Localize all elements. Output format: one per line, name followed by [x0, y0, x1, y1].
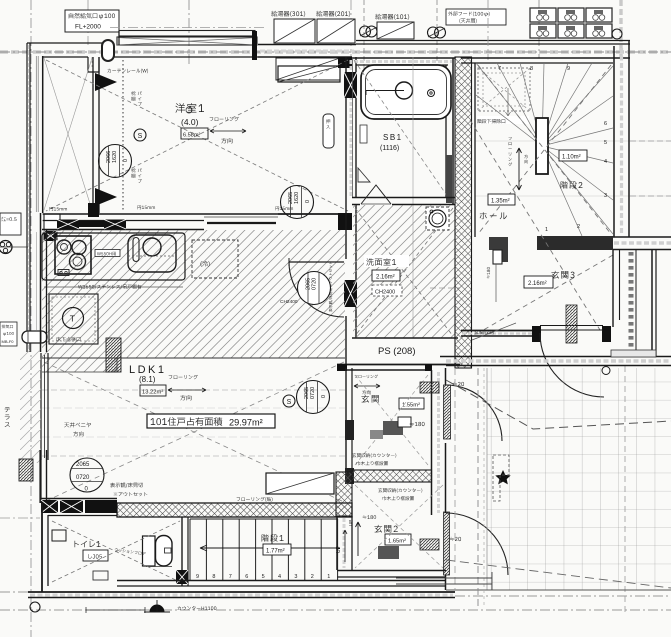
svg-text:0720: 0720 — [310, 387, 316, 399]
svg-text:6: 6 — [604, 121, 607, 127]
bench with diagonal — [266, 473, 334, 494]
toilet dashed diagonal — [52, 521, 180, 582]
door spec circle (2065/0720) rotated — [297, 381, 330, 414]
svg-text:CH2400: CH2400 — [375, 290, 395, 296]
bath room dashed diagonal — [354, 60, 450, 200]
svg-text:T: T — [70, 314, 75, 324]
wall: band continues right — [613, 236, 671, 238]
stair2 room left wall — [474, 63, 476, 237]
svg-text:(1116): (1116) — [380, 145, 399, 152]
left wall below window — [39, 450, 41, 503]
vent symbol circles left — [360, 26, 371, 37]
svg-text:2065: 2065 — [76, 462, 90, 468]
label =0.5 — [0, 213, 21, 235]
wall: stair1 bottom — [117, 580, 446, 582]
shelf top right of room — [278, 66, 340, 82]
genkan2 door leaf — [444, 512, 450, 575]
window: balcony rail line — [110, 27, 265, 29]
svg-text:PS (208): PS (208) — [378, 346, 416, 357]
LDK ceiling dashed X — [44, 362, 344, 502]
stove (konro) — [55, 236, 91, 274]
wall: bath right x446-453 — [445, 65, 447, 198]
genkan2 ceiling dashes — [355, 485, 443, 568]
label: water heater 101 — [375, 14, 409, 20]
left crosshatch strip genkan2 — [336, 472, 352, 516]
wire: vertical centerline x=189 (window) — [188, 0, 190, 64]
label: flooring direction arrow — [210, 117, 239, 121]
label box 1.77m2 — [263, 544, 291, 555]
front door leaf — [540, 325, 603, 327]
wire: centerline x=488 top — [487, 0, 489, 60]
wall niche at left end — [44, 214, 60, 230]
wall: genkan top (PS bottom) — [337, 364, 460, 366]
genkan3 dashed diagonals — [470, 120, 600, 330]
front door sill hatched — [566, 305, 577, 343]
floor access (T) box — [49, 294, 98, 344]
furred wall teeth — [635, 250, 637, 356]
wall: vertical wet wall x346-356 — [345, 57, 347, 259]
wall: genkan3 east wall — [612, 250, 614, 327]
wire: left stub y=518 — [0, 517, 40, 519]
svg-text:0: 0 — [321, 395, 327, 398]
flooring vertical arrow hall — [517, 148, 522, 190]
front door swing arc — [540, 333, 604, 397]
svg-text:1: 1 — [327, 574, 330, 580]
meter boxes top right (2 rows x 3) — [530, 8, 556, 22]
star marker — [495, 470, 510, 484]
window spec circle left (2065/0720) — [70, 458, 104, 492]
property dashed line — [446, 380, 671, 429]
door spec circle rotated (washroom door) — [298, 272, 331, 305]
label box 2.16m2 — [372, 270, 400, 281]
svg-text:8: 8 — [530, 66, 533, 72]
vent fan circle left — [0, 241, 12, 254]
svg-text:7: 7 — [498, 66, 501, 72]
svg-text:29.97m²: 29.97m² — [229, 418, 263, 428]
label box: unit area 29.97m2 — [147, 414, 275, 428]
wall: right outer wall x614-629 — [613, 46, 615, 237]
kitchen counter outline — [42, 233, 185, 280]
genkan step blocks — [383, 421, 403, 435]
vent symbol circles x=433 — [428, 27, 439, 38]
flooring arrow LDK — [169, 375, 198, 379]
label: stair2 name — [561, 181, 583, 188]
label: room name 洋室1 — [175, 103, 204, 113]
window spec circle bottom right (2065/1620) — [281, 186, 314, 219]
bathtub — [361, 65, 451, 119]
svg-text:S: S — [287, 399, 292, 406]
label: floor edge note — [110, 483, 143, 488]
genkan2 step blocks — [378, 546, 399, 559]
svg-text:2: 2 — [577, 224, 580, 230]
svg-text:13.22m²: 13.22m² — [142, 390, 163, 396]
label: water heater 201 — [316, 11, 350, 17]
door frame X-box bottom — [344, 280, 357, 307]
closet front dotted line x=123 — [122, 60, 124, 210]
label box toilet — [83, 550, 108, 561]
svg-text:(4.0): (4.0) — [181, 117, 199, 127]
dashed box CH2400 — [372, 285, 402, 296]
washroom door arc into LDK — [289, 262, 344, 317]
genkan right wall x431-446 — [431, 370, 433, 515]
genkan door swing arc — [446, 385, 502, 441]
shower fixture left wall — [360, 125, 367, 143]
svg-text:FL+2000: FL+2000 — [75, 24, 101, 31]
wire: plumbing line x=364 — [363, 0, 365, 92]
svg-text:9: 9 — [196, 574, 199, 580]
stair1 direction arrow — [200, 545, 340, 551]
window: sliding frame band with cross — [117, 37, 257, 45]
mirror bar right wall — [446, 155, 452, 203]
svg-text:1620: 1620 — [112, 151, 118, 163]
wire: closet centerline stub x=88 — [87, 0, 89, 45]
svg-text:3: 3 — [294, 574, 297, 580]
porch outer walls right — [651, 250, 653, 356]
front door jambs — [532, 326, 541, 342]
svg-text:6.58m²: 6.58m² — [183, 132, 201, 138]
label: genkan — [361, 395, 378, 403]
svg-text:3: 3 — [604, 193, 607, 199]
svg-text:1.35m²: 1.35m² — [491, 199, 510, 205]
wall: genkan3 bottom left segment — [461, 330, 533, 332]
washroom floor hatch — [353, 205, 455, 338]
label box 1.55m2 — [399, 398, 424, 409]
door frame X-box top — [344, 72, 357, 98]
label: water heater 301 — [271, 11, 305, 17]
porch dashed vertical lines — [477, 368, 479, 608]
label: genkan2 — [374, 525, 397, 533]
svg-text:0720: 0720 — [76, 475, 90, 481]
washroom dashed diagonals — [355, 208, 453, 336]
room diagonals (ceiling dashed) — [46, 60, 348, 211]
svg-text:4: 4 — [604, 159, 607, 165]
exterior tile grid — [487, 368, 671, 590]
label 円15mm — [137, 205, 155, 209]
label flooring(hari) — [237, 497, 273, 502]
genkan2 left wall below — [336, 516, 338, 570]
door frame X-boxes in kitchen wall — [57, 220, 79, 230]
duct pill at window jamb — [102, 40, 114, 61]
label: stair1 name — [262, 534, 284, 541]
folding bath door — [361, 185, 391, 204]
wall: genkan2 bottom — [337, 570, 446, 572]
svg-text:1: 1 — [545, 227, 548, 233]
label: under-stair access — [477, 116, 529, 124]
wall: yoshitsu1 bottom wall — [43, 213, 352, 215]
wall: crosshatch wall x457-470 — [455, 57, 472, 368]
label box 2.16m2 genkan3 — [524, 276, 553, 288]
toilet top wall with X boxes — [40, 498, 117, 500]
wire: left vertical centerline x=31 — [30, 0, 32, 637]
svg-text:0720: 0720 — [312, 278, 318, 290]
wall: washroom bottom / PS top — [352, 337, 458, 339]
genkan2 door swing arc — [446, 513, 508, 575]
wall: top wall right of window (x258-356) — [258, 44, 356, 46]
svg-text:9: 9 — [567, 66, 570, 72]
toilet small fixtures — [52, 530, 66, 541]
label box 1.35m2 — [488, 194, 515, 205]
label: hall name — [480, 212, 507, 219]
left wall kitchen segment — [40, 213, 42, 352]
left wall pipes: pill — [22, 331, 47, 343]
genkan left wall — [345, 368, 347, 470]
closet door black triangles — [95, 73, 117, 91]
anchor symbol bottom — [150, 605, 164, 612]
svg-text:1.65m²: 1.65m² — [388, 539, 406, 545]
sensor S circle LDK — [283, 395, 295, 407]
wire: right gray band x=621 — [619, 0, 622, 57]
window jamb right — [252, 31, 257, 60]
svg-text:UP: UP — [336, 545, 342, 553]
window centerline marker circle — [186, 107, 192, 113]
window spec circle left (2066/1620) — [99, 145, 132, 178]
fridge dashed box — [192, 240, 238, 278]
svg-text:2: 2 — [311, 574, 314, 580]
wire: plumbing line x=437 — [436, 0, 438, 92]
wall notch near window — [88, 57, 99, 72]
svg-text:4: 4 — [278, 574, 281, 580]
label box: natural air inlet — [65, 10, 119, 32]
stair2 winder tread lines — [476, 63, 542, 146]
label: counter spec — [78, 284, 141, 289]
wall: bath top — [352, 57, 455, 59]
label: counter H1100 — [177, 606, 216, 610]
svg-text:1.77m²: 1.77m² — [266, 549, 285, 555]
svg-text:(8.1): (8.1) — [139, 375, 156, 384]
small circle porch — [602, 367, 610, 375]
washing machine — [426, 207, 449, 230]
wall: LDK bottom crosshatch band — [117, 503, 352, 517]
wire: wet wall centerline stub x=351 — [350, 0, 352, 58]
stair2 dashed diagonals — [478, 65, 611, 234]
toilet room walls — [41, 503, 43, 592]
genkan top-right sill — [420, 382, 439, 393]
svg-text:2.16m²: 2.16m² — [528, 281, 547, 287]
porch bottom steps — [396, 577, 492, 579]
UP arrow genkan2 — [356, 522, 361, 556]
wall: right outer band y356-366 — [440, 356, 671, 358]
stair1 treads — [190, 518, 338, 520]
wire: bottom boundary dashed y=610 — [0, 609, 671, 611]
genkan door leaf (hatched) — [444, 385, 451, 439]
hanger pipe labels — [131, 91, 135, 95]
small circle bottom left — [30, 602, 40, 612]
svg-text:5: 5 — [604, 140, 607, 146]
stair2 newel post — [536, 118, 548, 174]
label box exhaust left — [0, 322, 17, 346]
label box 13.22m2 — [140, 385, 166, 396]
svg-text:0: 0 — [123, 159, 129, 162]
label: genkan storage (counter) — [352, 453, 396, 458]
label: genkan3 — [551, 271, 574, 279]
stair2 dashed under-stair box — [478, 68, 530, 111]
terrace hatch — [20, 350, 41, 463]
label: ceiling direction — [64, 422, 91, 427]
sensor S circle — [134, 129, 146, 141]
wire: vertical centerline x=539 — [538, 0, 540, 58]
box with diagonal below 201 — [276, 58, 340, 80]
bottom outer wall — [28, 591, 455, 593]
toilet fixture — [143, 536, 156, 566]
flooring arrow genkan — [355, 375, 378, 379]
svg-text:SB1: SB1 — [383, 133, 403, 142]
stepped dashed outline near star — [493, 455, 509, 501]
wire: right margin stub lines — [475, 140, 671, 142]
hall step blocks — [489, 237, 508, 250]
svg-text:6: 6 — [245, 574, 248, 580]
label: curtain rail — [107, 69, 148, 74]
genkan2 sill — [420, 539, 439, 550]
svg-text:MB-F0: MB-F0 — [2, 339, 15, 344]
svg-text:5: 5 — [262, 574, 265, 580]
svg-text:UP: UP — [348, 520, 353, 526]
closet void diagonals — [44, 58, 92, 210]
vertical pill label (oshiire) — [323, 114, 334, 148]
counter end hatched sill — [106, 338, 121, 372]
label box 1.10m2 — [559, 150, 587, 161]
svg-text:0: 0 — [305, 200, 311, 203]
svg-text:S: S — [138, 133, 143, 140]
black corner block top-right — [338, 57, 352, 68]
terrace window (left) — [40, 353, 42, 460]
genkan right wall bottom stub — [445, 575, 447, 590]
label box 6.58m2 — [181, 128, 208, 139]
label box: exterior hood — [446, 9, 506, 25]
svg-text:8: 8 — [212, 574, 215, 580]
kitchen floor hatch — [42, 230, 345, 358]
wall: outer top wall y40.5-44 right part — [356, 40, 630, 42]
sink — [128, 235, 176, 272]
svg-text:CH2400: CH2400 — [280, 299, 298, 305]
genkan ceiling dashes — [355, 375, 428, 465]
svg-text:1.10m²: 1.10m² — [562, 155, 581, 161]
wall: stair2 bottom dark band — [537, 236, 613, 250]
label: washroom name — [364, 255, 409, 267]
svg-text:2.16m²: 2.16m² — [376, 275, 395, 281]
wall: stair block top — [461, 57, 630, 59]
wire: top horizontal centerline band y=52 — [0, 50, 671, 54]
black wall chunk right end — [338, 213, 352, 230]
wall line below window — [114, 56, 258, 58]
hatched vent block on left wall — [19, 459, 33, 481]
bath stool triangle — [358, 168, 370, 182]
sliding door opening — [204, 216, 278, 218]
small circle right of meter boxes — [612, 29, 622, 39]
small label box near sink — [95, 250, 120, 257]
wall: closet partition x93-99 — [92, 57, 94, 213]
label: toilet name — [75, 541, 101, 548]
wall: genkan storage crosshatch band — [352, 470, 432, 482]
svg-text:1620: 1620 — [294, 192, 300, 204]
svg-text:7: 7 — [229, 574, 232, 580]
label box 1.65m2 — [385, 534, 411, 545]
wall: bath/washroom divider — [352, 197, 455, 199]
wall: top-left corner / left outer wall — [27, 42, 102, 44]
label: genkan storage note — [474, 330, 493, 335]
